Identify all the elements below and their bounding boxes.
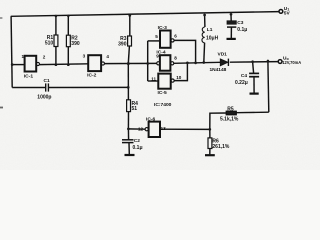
wire R3 top lead (129, 16, 131, 37)
wire C1 to feedback junction (49, 86, 128, 88)
node IC-6 input (127, 128, 130, 131)
node rail-R1 (55, 15, 58, 18)
gate IC-3 box (160, 31, 171, 48)
gate IC-3 bubble (171, 39, 174, 42)
capacitor C3 0.1u (227, 21, 236, 24)
wire R1 top lead (55, 16, 57, 35)
wire IC-1 out to IC-2 in (40, 63, 89, 66)
node IC-1 input (11, 63, 14, 66)
node R5 feed (267, 60, 270, 63)
terminal U1 5V (279, 10, 283, 14)
resistor R5 5.1k horizontal (226, 111, 236, 115)
resistor R3 390 (128, 36, 132, 46)
wire C4 bottom lead (253, 77, 255, 93)
wire IC-5 output up (174, 63, 187, 81)
wire IC-6 node to left bubble (128, 128, 145, 130)
ground below R6 (205, 154, 215, 156)
wire IC-6 node to C2 (127, 129, 129, 140)
gate IC-1 bubble (36, 62, 39, 65)
wire L1 bottom lead (203, 43, 206, 63)
wire R5 feed vertical right (267, 61, 270, 112)
wire branch vertical IC-3/IC-5 (147, 41, 149, 81)
node rail-R3 (128, 14, 131, 17)
node R2 bottom (67, 63, 70, 66)
ground below C4 (250, 92, 259, 94)
gate IC-6 left bubble (145, 128, 148, 131)
wire IC-2 out to IC-4 in (105, 62, 157, 64)
ground below C2 (125, 154, 135, 156)
wire R3 bottom lead to node (128, 46, 129, 64)
capacitor C2 0.1u (122, 139, 134, 141)
wire R2 top lead (67, 16, 69, 35)
node rail-C3 (230, 13, 233, 16)
wire C4 top lead (253, 62, 254, 73)
wire feedback vertical node to R4 (127, 64, 129, 100)
speck left edge mid (0, 107, 3, 109)
gate IC-4 left bubble (157, 62, 160, 65)
node feedback-C1 (127, 86, 130, 89)
wire R5 horizontal right lead (236, 111, 268, 114)
gate IC-2 bubble (101, 62, 104, 65)
wire R1 bottom lead (55, 47, 57, 65)
resistor R6 261 (208, 138, 212, 149)
wire C3 bottom lead (230, 28, 232, 39)
node IC-6 output R5/R6 (208, 128, 211, 131)
wire IC-1 input stub (12, 64, 24, 66)
gate IC-2 box (88, 55, 101, 71)
wire IC-5 input (148, 80, 159, 82)
gate IC-1 box (25, 56, 37, 72)
gate IC-4 box (160, 55, 171, 70)
capacitor C4 0.22u (249, 72, 259, 74)
resistor R2 390 (66, 35, 70, 47)
gate IC-5 bubble (171, 79, 174, 82)
wire R6 bottom lead to ground (209, 149, 211, 155)
node IC-3 down (194, 62, 197, 65)
ground below C3 (227, 38, 236, 40)
gate IC-6 box (149, 122, 160, 137)
node IC-5 up (186, 62, 189, 65)
wire R2 bottom lead (67, 47, 69, 65)
gate IC-4 right bubble (171, 62, 174, 65)
wire R5 left lead and corner down (210, 113, 226, 129)
gate IC-5 box (158, 74, 170, 89)
wire L1 top lead (204, 15, 206, 27)
node rail-R2 (67, 15, 70, 18)
diode VD1 1N4148 (220, 59, 228, 66)
node R1 bottom (55, 63, 58, 66)
wire left vertical from rail to feedback (11, 16, 12, 87)
wire IC-3 input (148, 40, 160, 42)
speck left edge top (0, 17, 2, 19)
resistor R1 510 (54, 35, 58, 47)
inductor L1 (202, 27, 205, 43)
wire top supply rail (11, 12, 279, 17)
wire R4 to IC-6 node (127, 112, 129, 129)
terminal Uo output (278, 60, 282, 64)
wire diode to Uo terminal (230, 61, 278, 64)
wire IC-6 output row (160, 128, 210, 130)
wire C2 to ground (128, 143, 130, 155)
wire IC-3 output to corner (175, 40, 196, 63)
node rail-L1 (203, 14, 206, 17)
node C4 top (251, 60, 254, 63)
node L1 bottom (202, 61, 205, 64)
resistor R4 51 (127, 100, 131, 112)
node R3 bottom (127, 62, 130, 65)
capacitor C1 1000p (45, 83, 47, 91)
node branch IC-3/IC-5 (146, 62, 149, 65)
wire IC-4 out to diode (174, 62, 220, 63)
wire C3 top lead (230, 14, 232, 20)
wire R6 top lead (209, 129, 211, 138)
wire feedback bottom left to C1 (12, 87, 45, 89)
